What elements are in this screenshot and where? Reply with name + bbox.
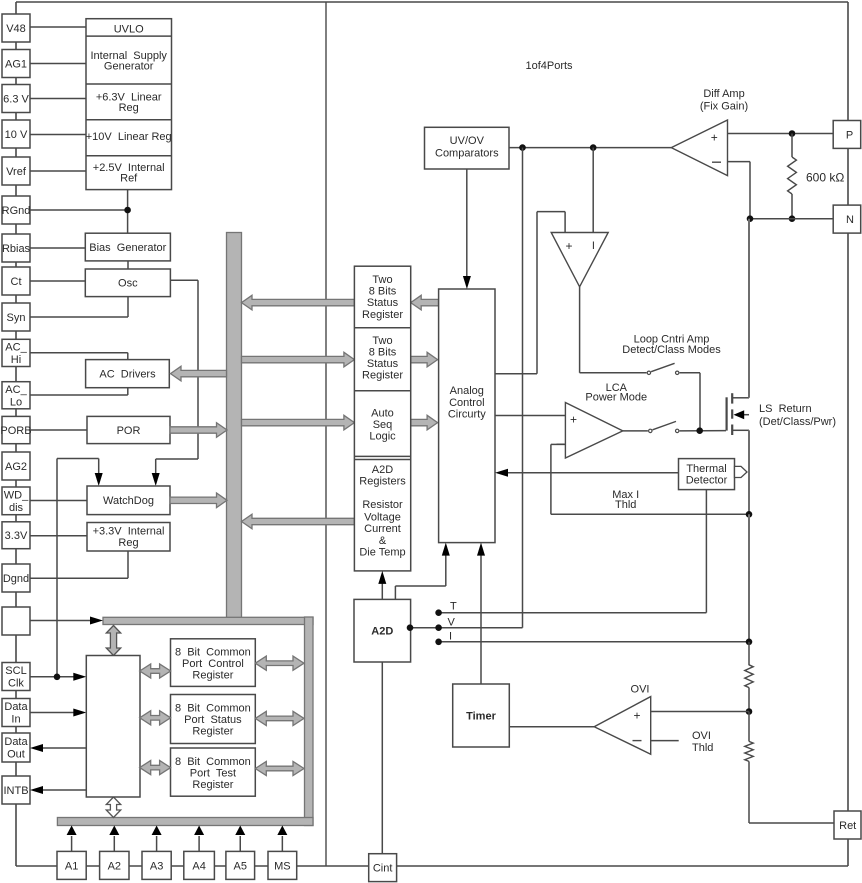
svg-text:+10V Linear Reg: +10V Linear Reg bbox=[86, 131, 172, 143]
svg-text:AG1: AG1 bbox=[5, 58, 27, 70]
arrowhead Timer into Analog Control bbox=[477, 543, 485, 556]
svg-text:Die Temp: Die Temp bbox=[359, 546, 405, 558]
arrowhead A4 into bottom bar bbox=[194, 826, 204, 836]
svg-text:WatchDog: WatchDog bbox=[103, 495, 154, 507]
svg-text:Status: Status bbox=[367, 358, 399, 370]
svg-text:Vref: Vref bbox=[6, 166, 27, 178]
pin A1 bbox=[57, 851, 86, 879]
svg-text:600 kΩ: 600 kΩ bbox=[806, 171, 844, 185]
block 8 Bit Common Port Control Register bbox=[171, 639, 256, 687]
pin Ct bbox=[2, 267, 30, 295]
node source sense junction bbox=[746, 511, 753, 518]
wire Timer to Analog Control bbox=[480, 554, 482, 684]
pin 10 V bbox=[2, 120, 30, 148]
wire A2 to bottom frame bar bbox=[113, 836, 115, 851]
svg-text:Data: Data bbox=[4, 701, 28, 713]
node V bbox=[435, 624, 442, 631]
svg-text:Power Mode: Power Mode bbox=[585, 392, 647, 404]
svg-text:3.3V: 3.3V bbox=[5, 530, 28, 542]
wire UVLO section divider 2 bbox=[86, 83, 172, 85]
pin MS bbox=[268, 851, 297, 879]
resistor OVI divider upper bbox=[748, 642, 750, 666]
white double arrow serial interface to bottom bar bbox=[106, 797, 120, 818]
svg-text:+: + bbox=[711, 131, 718, 145]
arrowhead into Data Out bbox=[30, 744, 43, 752]
block POR bbox=[87, 416, 170, 443]
arrowhead A5 into bottom bar bbox=[235, 826, 245, 836]
wire Rbias to Bias Generator bbox=[30, 247, 85, 249]
gray arrow bus to status register 2 bbox=[242, 352, 355, 367]
wire N node to MOSFET drain bbox=[748, 219, 750, 398]
gray double arrow control register / frame bar bbox=[255, 656, 304, 670]
block UVLO supply stack outline bbox=[86, 19, 172, 190]
pin Rbias bbox=[2, 234, 30, 262]
svg-text:Status: Status bbox=[367, 297, 399, 309]
svg-text:AC Drivers: AC Drivers bbox=[99, 369, 156, 381]
wire SCL Clk into serial interface bbox=[30, 676, 74, 678]
wire diff amp - input to N node bbox=[728, 161, 750, 163]
gray arrow bus to AC Drivers bbox=[171, 366, 227, 381]
gray arrow POR to bus bbox=[170, 423, 227, 438]
svg-text:Ref: Ref bbox=[120, 173, 138, 185]
node I comparator tap bbox=[590, 144, 597, 151]
svg-text:Syn: Syn bbox=[7, 312, 26, 324]
arrowhead SCL into WatchDog bbox=[95, 473, 103, 486]
svg-text:A5: A5 bbox=[234, 860, 247, 872]
wire 3.3V to +3.3V Internal Reg bbox=[30, 535, 87, 537]
node SCL junction bbox=[54, 674, 61, 681]
wire V sense line down to A2D V node bbox=[522, 148, 524, 628]
wire Bias Generator to Osc bbox=[127, 261, 129, 269]
svg-text:Out: Out bbox=[7, 749, 25, 761]
svg-text:Port Status: Port Status bbox=[184, 714, 242, 726]
wire outer frame top border bbox=[16, 1, 848, 3]
arrowhead UV/OV into Analog Control bbox=[463, 276, 471, 289]
wire AG1 to Internal Supply Generator bbox=[30, 63, 86, 65]
wire LCA output to power switch bbox=[623, 430, 648, 432]
arrowhead Data In into serial interface bbox=[73, 709, 86, 717]
gray double arrow frame bar to serial interface bbox=[106, 626, 120, 656]
transistor drain stub bbox=[733, 397, 749, 399]
wire MS to bottom frame bar bbox=[281, 836, 283, 851]
wire A2D to stacked registers bbox=[381, 583, 383, 600]
wire comparator output to detect switch bbox=[579, 287, 581, 373]
svg-text:8 Bit Common: 8 Bit Common bbox=[175, 756, 251, 768]
wire Osc output to watchdog route bbox=[170, 279, 198, 281]
transistor source stub bbox=[733, 429, 749, 431]
gray double arrow serial interface / test register bbox=[140, 761, 171, 775]
pin A5 bbox=[226, 851, 255, 879]
svg-text:Register: Register bbox=[192, 725, 233, 737]
svg-text:V48: V48 bbox=[6, 23, 26, 35]
wire Data In into serial interface bbox=[30, 712, 74, 714]
node RGnd junction bbox=[124, 207, 131, 214]
svg-text:Registers: Registers bbox=[359, 476, 406, 488]
wire UVLO section divider 1 bbox=[86, 35, 172, 37]
wire Timer to OVI comparator bbox=[509, 726, 594, 728]
block 8 Bit Common Port Status Register bbox=[171, 695, 256, 744]
arrow thermal detector output marker bbox=[735, 466, 748, 477]
transistor channel dashes bbox=[731, 393, 733, 403]
svg-text:Dgnd: Dgnd bbox=[3, 573, 29, 585]
node I trunk junction bbox=[746, 639, 753, 646]
svg-text:Circurty: Circurty bbox=[448, 409, 486, 421]
wire power switch to gate node bbox=[680, 430, 726, 432]
svg-text:RGnd: RGnd bbox=[2, 205, 31, 217]
wire A3 to bottom frame bar bbox=[156, 836, 158, 851]
wire SCL branch to WatchDog bbox=[56, 459, 58, 678]
svg-text:Cint: Cint bbox=[373, 863, 393, 875]
wire A1 to bottom frame bar bbox=[71, 836, 73, 851]
svg-text:INTB: INTB bbox=[3, 785, 28, 797]
wire MOSFET source to sense node bbox=[748, 430, 750, 514]
svg-text:Thld: Thld bbox=[692, 742, 713, 754]
wire LCA - feedback from source node bbox=[551, 513, 749, 515]
transistor LS Return pass MOSFET gate bbox=[725, 397, 727, 430]
svg-text:OVI: OVI bbox=[631, 684, 650, 696]
wire stacked box divider 2 bbox=[354, 390, 410, 392]
svg-text:Bias Generator: Bias Generator bbox=[89, 242, 166, 254]
wire AC_Hi to AC Drivers top bbox=[30, 352, 128, 354]
arrowhead A1 into bottom bar bbox=[67, 826, 77, 836]
svg-text:1of4Ports: 1of4Ports bbox=[525, 60, 573, 72]
svg-text:Control: Control bbox=[449, 397, 484, 409]
svg-text:A3: A3 bbox=[150, 860, 163, 872]
block Thermal Detector bbox=[679, 459, 735, 490]
block Osc bbox=[85, 269, 170, 297]
svg-text:Thld: Thld bbox=[615, 499, 636, 511]
pin RGnd bbox=[2, 196, 30, 224]
svg-text:T: T bbox=[450, 601, 457, 613]
gray arrow status register 2 to analog control bbox=[411, 352, 438, 367]
wire UV/OV to Analog Control bbox=[466, 169, 468, 277]
svg-text:Clk: Clk bbox=[8, 678, 24, 690]
block stacked status/control registers outline bbox=[354, 266, 410, 571]
svg-text:Timer: Timer bbox=[466, 710, 496, 722]
pin V48 bbox=[2, 14, 30, 42]
pin 3.3V bbox=[2, 522, 30, 549]
transistor body arrow bbox=[741, 414, 749, 416]
wire I comparator - input bbox=[592, 148, 594, 233]
svg-text:V: V bbox=[448, 617, 456, 629]
svg-text:N: N bbox=[846, 214, 854, 226]
pin AG1 bbox=[2, 50, 30, 78]
gray arrow status register 1 to bus bbox=[242, 295, 355, 310]
gray arrow bus to auto seq logic bbox=[242, 415, 355, 430]
svg-text:Auto: Auto bbox=[371, 407, 394, 419]
svg-text:Rbias: Rbias bbox=[2, 243, 31, 255]
arrowhead A2D into stacked registers bbox=[378, 571, 386, 584]
node N trunk junction bbox=[747, 215, 754, 222]
svg-text:Analog: Analog bbox=[450, 385, 484, 397]
wire N to sense trunk bbox=[750, 218, 833, 220]
svg-text:Hi: Hi bbox=[11, 354, 21, 366]
svg-text:Register: Register bbox=[192, 779, 233, 791]
gray double arrow status register / frame bar bbox=[255, 711, 304, 725]
gray arrow WatchDog to bus bbox=[170, 493, 227, 508]
svg-text:MS: MS bbox=[274, 860, 291, 872]
node A2D output junction bbox=[407, 624, 414, 631]
svg-text:Register: Register bbox=[362, 309, 403, 321]
arrowhead thermal into Analog Control bbox=[495, 469, 508, 477]
svg-text:AG2: AG2 bbox=[5, 461, 27, 473]
svg-text:I: I bbox=[592, 240, 595, 252]
svg-text:Voltage: Voltage bbox=[364, 511, 401, 523]
svg-text:Port Test: Port Test bbox=[190, 767, 236, 779]
arrowhead SCL into serial interface bbox=[73, 673, 86, 681]
pin A2 bbox=[100, 851, 129, 879]
pin blank pin bbox=[2, 607, 30, 635]
pin 6.3 V bbox=[2, 85, 30, 113]
pin Syn bbox=[2, 303, 30, 331]
bus central vertical gray data bus bbox=[227, 233, 242, 619]
block UV/OV Comparators bbox=[425, 127, 510, 169]
svg-text:Osc: Osc bbox=[118, 278, 138, 290]
wire detect switch to gate node bbox=[680, 372, 700, 374]
pin N bbox=[833, 205, 861, 233]
pin Vref bbox=[2, 157, 30, 185]
pin A3 bbox=[142, 851, 171, 879]
svg-text:PORB: PORB bbox=[0, 425, 31, 437]
wire A2D output to V node bbox=[410, 627, 439, 629]
svg-text:8 Bits: 8 Bits bbox=[369, 286, 397, 298]
svg-text:Thermal: Thermal bbox=[686, 463, 726, 475]
wire RGnd to node under supply stack bbox=[30, 209, 128, 211]
svg-text:Two: Two bbox=[372, 274, 392, 286]
svg-text:Current: Current bbox=[364, 523, 401, 535]
wire Ct to Osc bbox=[30, 280, 85, 282]
node 600k top junction bbox=[789, 130, 796, 137]
pin AG2 bbox=[2, 452, 30, 480]
pin Dgnd bbox=[2, 564, 30, 592]
wire outer frame bottom border bbox=[16, 865, 848, 867]
svg-text:Resistor: Resistor bbox=[362, 499, 403, 511]
svg-text:OVI: OVI bbox=[692, 730, 711, 742]
svg-text:&: & bbox=[379, 535, 387, 547]
pin PORB bbox=[2, 416, 30, 443]
svg-text:Diff Amp: Diff Amp bbox=[703, 88, 744, 100]
wire internal divider digital/analog bbox=[325, 2, 327, 866]
wire OVI - input to OVI Thld bbox=[651, 740, 679, 742]
bus register frame top bar bbox=[103, 617, 313, 624]
svg-text:Ct: Ct bbox=[11, 276, 22, 288]
svg-text:I: I bbox=[449, 631, 452, 643]
gray arrow A2D registers to bus bbox=[242, 514, 355, 529]
svg-text:A2D: A2D bbox=[371, 626, 393, 638]
arrowhead Osc clock into WatchDog bbox=[152, 473, 160, 486]
arrowhead into INTB bbox=[30, 786, 43, 794]
wire A2D to Analog Control bbox=[394, 586, 396, 599]
block +3.3V Internal Reg bbox=[87, 523, 170, 552]
pin Cint bbox=[369, 854, 397, 882]
pin AC_Hi bbox=[2, 339, 30, 366]
node T bbox=[435, 609, 442, 616]
op-amp detect/class comparator bbox=[551, 233, 608, 287]
svg-text:(Fix Gain): (Fix Gain) bbox=[700, 101, 748, 113]
svg-text:POR: POR bbox=[117, 425, 141, 437]
pin P bbox=[833, 121, 861, 149]
svg-text:UV/OV: UV/OV bbox=[450, 135, 485, 147]
svg-text:A1: A1 bbox=[65, 860, 78, 872]
svg-text:+: + bbox=[633, 709, 640, 723]
svg-text:Comparators: Comparators bbox=[435, 147, 499, 159]
wire diff amp + input to P bbox=[728, 133, 833, 135]
block serial interface (unlabeled) bbox=[86, 656, 140, 798]
gray double arrow serial interface / control register bbox=[140, 664, 171, 678]
op-amp Diff Amp (Fix Gain) bbox=[671, 120, 727, 176]
wire Analog Control to LCA + input bbox=[495, 415, 565, 417]
gray arrow auto seq logic to analog control bbox=[411, 415, 438, 430]
pin INTB bbox=[2, 776, 30, 804]
block 8 Bit Common Port Test Register bbox=[171, 748, 256, 796]
wire outer frame left border bbox=[15, 2, 17, 866]
svg-text:AC_: AC_ bbox=[5, 342, 27, 354]
svg-text:WD_: WD_ bbox=[4, 490, 29, 502]
svg-text:+: + bbox=[565, 239, 572, 253]
gray arrow analog control to status register 1 bbox=[411, 295, 439, 310]
wire +3.3V Reg to Dgnd bbox=[127, 551, 129, 578]
wire serial interface to Data Out bbox=[42, 747, 86, 749]
svg-text:In: In bbox=[11, 714, 20, 726]
wire sense trunk upper segment bbox=[748, 514, 750, 642]
switch power mode bbox=[649, 429, 652, 432]
wire OVI + input to divider bbox=[651, 711, 749, 713]
svg-text:Lo: Lo bbox=[10, 396, 22, 408]
pin WD_dis bbox=[2, 487, 30, 515]
svg-text:A4: A4 bbox=[192, 860, 205, 872]
node V sense tap bbox=[519, 144, 526, 151]
node 600k bottom junction bbox=[789, 215, 796, 222]
svg-text:LS Return: LS Return bbox=[759, 403, 812, 415]
wire Syn to Osc bottom bbox=[127, 297, 129, 317]
wire V line bbox=[439, 627, 523, 629]
node gate drive junction bbox=[696, 427, 703, 434]
op-amp detect/class comparator + input route bbox=[495, 373, 537, 375]
svg-text:P: P bbox=[846, 129, 853, 141]
wire PORB to POR bbox=[30, 429, 87, 431]
arrowhead blank pin into frame top bar bbox=[90, 617, 103, 625]
wire 10V to +10V Linear Reg bbox=[30, 134, 86, 136]
svg-text:Detect/Class Modes: Detect/Class Modes bbox=[622, 344, 721, 356]
svg-text:Data: Data bbox=[4, 736, 28, 748]
svg-text:Reg: Reg bbox=[119, 102, 139, 114]
pin AC_Lo bbox=[2, 382, 30, 409]
wire 6.3V to +6.3V Linear Reg bbox=[30, 98, 86, 100]
block Analog Control Circurty bbox=[439, 289, 495, 543]
svg-text:+3.3V Internal: +3.3V Internal bbox=[93, 526, 165, 538]
wire stacked box divider 1 bbox=[354, 327, 410, 329]
wire WD_dis to WatchDog bbox=[30, 500, 87, 502]
wire Thermal Detector to T line bbox=[705, 490, 707, 613]
svg-text:Register: Register bbox=[192, 669, 233, 681]
wire serial interface to INTB bbox=[42, 789, 86, 791]
pin SCL Clk bbox=[2, 663, 30, 691]
svg-text:Detector: Detector bbox=[686, 475, 728, 487]
svg-text:6.3 V: 6.3 V bbox=[3, 93, 29, 105]
wire divider bottom to Ret bbox=[749, 822, 834, 824]
svg-text:+: + bbox=[570, 413, 577, 427]
svg-text:AC_: AC_ bbox=[5, 384, 27, 396]
pin Ret bbox=[834, 811, 861, 839]
svg-text:10 V: 10 V bbox=[5, 129, 28, 141]
bus register frame right bar bbox=[305, 617, 314, 826]
bus register frame bottom bar bbox=[57, 818, 313, 826]
op-amp LCA loop control amp bbox=[565, 403, 622, 459]
svg-text:Two: Two bbox=[372, 335, 392, 347]
block Bias Generator bbox=[85, 233, 170, 261]
wire UVLO section divider 4 bbox=[86, 155, 172, 157]
svg-text:(Det/Class/Pwr): (Det/Class/Pwr) bbox=[759, 416, 836, 428]
switch detect/class mode bbox=[647, 371, 650, 374]
wire outer frame right border bbox=[847, 2, 849, 866]
wire UVLO section divider 3 bbox=[86, 119, 172, 121]
wire UVLO stack bottom to Bias Generator bbox=[127, 190, 129, 234]
wire A2D to Cint bbox=[381, 662, 383, 854]
svg-text:8 Bit Common: 8 Bit Common bbox=[175, 702, 251, 714]
svg-text:Port Control: Port Control bbox=[182, 658, 244, 670]
resistor OVI divider lower bbox=[748, 712, 750, 742]
node OVI sense junction bbox=[746, 708, 753, 715]
wire AC_Lo to AC Drivers bottom bbox=[30, 394, 128, 396]
svg-text:SCL: SCL bbox=[5, 665, 26, 677]
wire blank pin to register frame bbox=[30, 620, 91, 622]
gray double arrow test register / frame bar bbox=[255, 761, 304, 775]
svg-text:UVLO: UVLO bbox=[114, 24, 144, 36]
svg-text:Seq: Seq bbox=[373, 419, 393, 431]
svg-text:8 Bit Common: 8 Bit Common bbox=[175, 646, 251, 658]
pin A4 bbox=[184, 851, 215, 879]
block WatchDog bbox=[87, 486, 170, 515]
arrowhead MS into bottom bar bbox=[277, 826, 287, 836]
block Timer bbox=[453, 684, 510, 747]
svg-text:Register: Register bbox=[362, 370, 403, 382]
wire stacked box divider 3 (double) bbox=[354, 455, 410, 457]
pin Data Out bbox=[2, 733, 30, 762]
pin Data In bbox=[2, 699, 30, 727]
svg-text:8 Bits: 8 Bits bbox=[369, 346, 397, 358]
svg-text:Logic: Logic bbox=[369, 431, 396, 443]
arrowhead A2 into bottom bar bbox=[109, 826, 119, 836]
wire A4 to bottom frame bar bbox=[198, 836, 200, 851]
node I bbox=[435, 639, 442, 646]
wire I line to sense trunk bbox=[439, 641, 749, 643]
op-amp OVI comparator bbox=[594, 697, 651, 755]
gray double arrow serial interface / status register bbox=[140, 711, 171, 725]
svg-text:Ret: Ret bbox=[839, 820, 856, 832]
svg-text:A2: A2 bbox=[108, 860, 121, 872]
wire thermal detector to Analog Control bbox=[507, 472, 679, 474]
wire diff amp output to UV/OV comparators bbox=[509, 147, 671, 149]
arrowhead A3 into bottom bar bbox=[152, 826, 162, 836]
wire A5 to bottom frame bar bbox=[239, 836, 241, 851]
svg-text:Generator: Generator bbox=[104, 61, 154, 73]
wire Vref to +2.5V Internal Ref bbox=[30, 170, 86, 172]
svg-text:A2D: A2D bbox=[372, 464, 393, 476]
block AC Drivers bbox=[86, 360, 170, 388]
resistor 600 kOhm bbox=[791, 134, 793, 158]
svg-text:dis: dis bbox=[9, 502, 24, 514]
block A2D bbox=[354, 599, 411, 662]
wire V48 to UVLO bbox=[30, 26, 86, 28]
arrowhead A2D route into Analog Control bbox=[442, 543, 450, 556]
svg-text:Reg: Reg bbox=[118, 537, 138, 549]
